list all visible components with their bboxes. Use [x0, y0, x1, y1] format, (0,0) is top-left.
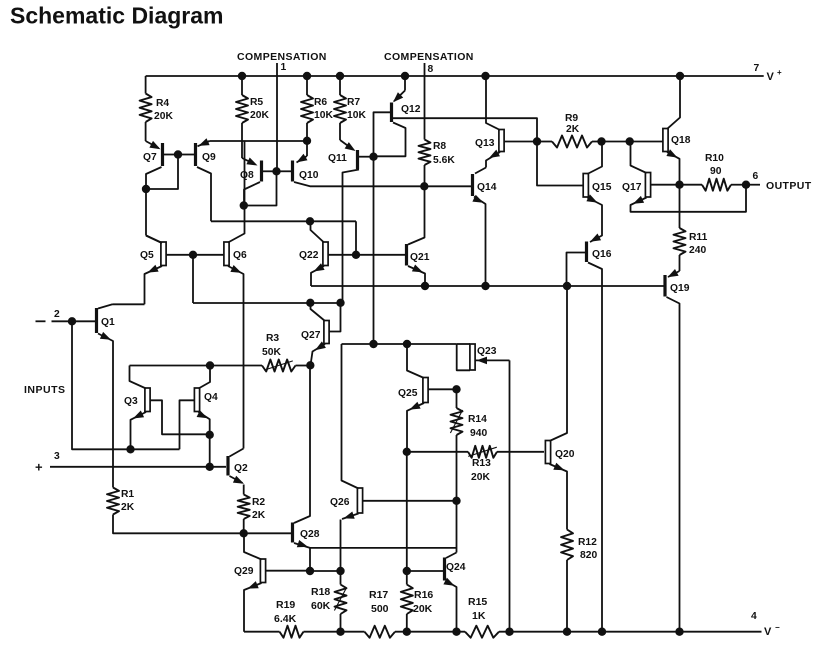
wire R16top to Q24 base	[407, 570, 443, 572]
svg-text:R12: R12	[578, 537, 597, 548]
wire Q23 emitter	[475, 359, 510, 361]
node Q18 collector rail	[676, 72, 684, 80]
node Q21 emitter	[421, 282, 429, 290]
svg-text:INPUTS: INPUTS	[24, 384, 66, 396]
svg-text:Q21: Q21	[410, 252, 430, 263]
wire Q9 collector	[197, 167, 211, 221]
svg-text:50K: 50K	[262, 347, 281, 358]
transistor Q25	[423, 378, 428, 403]
transistor Q24	[443, 558, 446, 581]
node Q3 emitter	[126, 445, 134, 453]
svg-text:20K: 20K	[154, 111, 173, 122]
svg-text:Q1: Q1	[101, 317, 115, 328]
node Q3base-Q4emit	[206, 431, 214, 439]
wire Q22 collector	[311, 221, 325, 242]
node Q14 emitter	[481, 282, 489, 290]
node R6 bottom	[303, 137, 311, 145]
wire Q27 emitter	[311, 344, 326, 365]
node Q28 emitter	[306, 567, 314, 575]
wire Q25 collector	[407, 344, 424, 378]
wire R3 row left	[130, 365, 263, 367]
wire Q12 emitter	[404, 76, 406, 91]
resistor R13	[407, 451, 468, 453]
transistor Q21	[405, 244, 408, 266]
svg-text:20K: 20K	[471, 472, 490, 483]
svg-text:R18: R18	[311, 586, 330, 598]
svg-text:10K: 10K	[347, 110, 366, 121]
node R5 top	[238, 72, 246, 80]
slash R3	[264, 361, 293, 370]
resistor R15	[465, 626, 499, 638]
node R12 bottom	[563, 628, 571, 636]
svg-text:Q13: Q13	[475, 138, 495, 149]
node R18 top	[336, 567, 344, 575]
wire V- rail c	[395, 631, 465, 633]
resistor R12	[561, 530, 573, 561]
svg-text:R14: R14	[468, 414, 487, 425]
wire Q9 emitter rail	[210, 140, 308, 142]
svg-text:Q10: Q10	[299, 170, 319, 181]
svg-text:Q14: Q14	[477, 182, 497, 193]
wire Q14 emitter	[474, 197, 486, 287]
svg-text:Q15: Q15	[592, 182, 612, 193]
node Q22-Q21 base	[352, 251, 360, 259]
transistor Q7	[161, 143, 164, 166]
svg-text:2K: 2K	[121, 502, 135, 513]
node R2 bottom	[240, 529, 248, 537]
resistor R8	[419, 140, 431, 166]
svg-text:R19: R19	[276, 599, 295, 611]
svg-text:Q4: Q4	[204, 392, 218, 403]
wire Q27 collector	[311, 303, 326, 321]
node Q25 base	[452, 385, 460, 393]
node R9 right	[597, 137, 605, 145]
svg-text:Q8: Q8	[240, 170, 254, 181]
resistor R3	[262, 360, 296, 372]
svg-text:6: 6	[753, 171, 759, 182]
wire pin2row to Q4base	[131, 448, 180, 450]
svg-text:R10: R10	[705, 153, 724, 164]
wire Q18 collector	[667, 76, 680, 129]
node row344 a	[369, 340, 377, 348]
svg-text:R7: R7	[347, 97, 360, 108]
svg-text:R3: R3	[266, 333, 279, 344]
wire Q9 base	[178, 154, 194, 156]
wire Q3 emitter	[131, 412, 147, 449]
wire Q21 collector	[408, 186, 425, 244]
wire R6 to Q10 emitter	[306, 141, 308, 156]
transistor Q1	[95, 308, 98, 333]
node R7 top	[336, 72, 344, 80]
resistor R19	[280, 626, 304, 638]
wire Q9 emitter	[198, 141, 210, 146]
svg-text:Q22: Q22	[299, 250, 319, 261]
wire Q21 emitter	[408, 266, 425, 286]
wire Q22 base	[329, 254, 357, 256]
wire base row y303	[193, 302, 341, 304]
svg-text:−: −	[775, 623, 780, 632]
svg-text:R8: R8	[433, 141, 446, 152]
node Q7-Q9 base	[174, 150, 182, 158]
node Q27 collector	[306, 299, 314, 307]
wire Q7 base to node	[164, 154, 178, 156]
svg-text:Q9: Q9	[202, 152, 216, 163]
transistor Q19	[663, 275, 666, 297]
svg-text:V: V	[767, 71, 775, 83]
node Q19 collector bottom	[675, 628, 683, 636]
resistor R7	[339, 76, 341, 95]
node Q7 collector	[142, 185, 150, 193]
wire Q13 base	[504, 141, 537, 143]
svg-text:Q19: Q19	[670, 283, 690, 294]
svg-text:Q6: Q6	[233, 250, 247, 261]
transistor Q26	[357, 488, 362, 513]
resistor R2	[243, 485, 245, 495]
wire Q10 base	[277, 170, 292, 172]
transistor Q20	[545, 441, 550, 464]
svg-text:90: 90	[710, 166, 722, 177]
wire Q4 collector	[199, 366, 211, 389]
wire Q4 emitter	[199, 412, 210, 435]
resistor R18	[340, 571, 342, 585]
svg-text:V: V	[764, 626, 772, 638]
wire R14 top	[456, 389, 458, 408]
wire Q6 collector	[228, 141, 245, 243]
wire Q8 collector	[244, 182, 260, 206]
svg-text:20K: 20K	[413, 603, 433, 615]
svg-text:R9: R9	[565, 113, 578, 124]
transistor Q3	[145, 388, 150, 412]
wire Q1 collector	[98, 304, 113, 308]
wire Q15 emitter	[587, 198, 602, 243]
svg-text:60K: 60K	[311, 600, 331, 612]
wire Q7coll to Q5 collector	[145, 189, 147, 236]
svg-text:Q28: Q28	[300, 529, 320, 540]
transistor Q13	[499, 130, 504, 152]
node pin6	[742, 181, 750, 189]
wire Q4 base riser	[180, 400, 195, 449]
wire V- rail b	[304, 631, 365, 633]
wire Q26 emitter	[342, 514, 359, 520]
wire Q26 base	[363, 500, 457, 502]
wire pin8 compensation lead	[424, 63, 426, 140]
transistor Q16	[585, 242, 588, 263]
svg-text:R6: R6	[314, 97, 327, 108]
transistor Q15	[583, 174, 588, 198]
svg-text:OUTPUT: OUTPUT	[766, 180, 812, 192]
wire Q13 emitter	[486, 152, 500, 168]
wire Q28 collector	[294, 365, 310, 523]
resistor R10	[680, 184, 703, 186]
svg-text:4: 4	[751, 611, 757, 622]
wire Q5 emitter	[145, 266, 163, 304]
resistor R14	[451, 408, 463, 435]
svg-text:Q3: Q3	[124, 396, 138, 407]
svg-text:10K: 10K	[314, 110, 333, 121]
wire R12 bottom	[566, 560, 568, 632]
wire R5 to Q8 emitter	[242, 158, 255, 164]
resistor R17	[365, 626, 396, 638]
wire Q20 collector	[550, 286, 568, 441]
wire Q25emit to R16	[406, 452, 408, 571]
wire Q27 base	[329, 303, 341, 332]
slash R13a	[468, 447, 497, 456]
transistor Q11	[356, 150, 359, 169]
transistor Q22	[323, 242, 328, 266]
svg-text:1: 1	[281, 62, 287, 73]
wire Q15 collector	[587, 142, 602, 175]
slash R18	[334, 588, 346, 611]
wire Q17 emitter	[631, 185, 747, 212]
svg-text:2: 2	[54, 309, 60, 320]
node R16 top	[403, 567, 411, 575]
svg-text:Q27: Q27	[301, 330, 321, 341]
wire Q11 collector	[343, 170, 360, 303]
wire row to base node	[355, 221, 357, 255]
wire mid row	[311, 285, 664, 287]
wire R8 to Q14 base node	[424, 165, 426, 186]
wire Q3 collector	[130, 366, 147, 389]
wire Q1 emitter	[98, 334, 113, 488]
wire Q12 base riser	[374, 112, 391, 156]
svg-text:820: 820	[580, 550, 597, 561]
wire Q23emit to Vminus	[509, 360, 511, 631]
wire Q5 emit to Q1 coll	[113, 303, 145, 305]
wire Q26 collector	[342, 344, 359, 489]
node V- a	[505, 628, 513, 636]
wire Q5 base	[166, 254, 193, 256]
wire R7 to Q11 emitter	[340, 140, 353, 150]
svg-text:Q5: Q5	[140, 250, 154, 261]
wire node to Q25 row	[373, 157, 375, 344]
transistor Q27	[324, 321, 329, 344]
wire R3 right	[296, 365, 311, 367]
node R18 bottom	[336, 628, 344, 636]
svg-text:R16: R16	[414, 589, 433, 601]
resistor R4	[145, 76, 147, 94]
wire R1 bottom	[113, 515, 291, 534]
transistor Q23	[470, 344, 475, 370]
transistor Q5	[161, 242, 166, 266]
wire R11 to Q19 emitter	[679, 255, 681, 271]
resistor R16	[406, 571, 408, 585]
svg-text:20K: 20K	[250, 110, 269, 121]
wire Q6 base	[193, 254, 224, 256]
node R13 left	[403, 448, 411, 456]
wire Q7 base-collector tie	[146, 155, 178, 190]
svg-text:5.6K: 5.6K	[433, 155, 455, 166]
svg-text:Q18: Q18	[671, 135, 691, 146]
wire Q12 base to Q13 base	[393, 118, 537, 141]
svg-text:R2: R2	[252, 497, 265, 508]
svg-text:240: 240	[689, 245, 706, 256]
node Q26 base right	[452, 497, 460, 505]
wire Q19 collector	[667, 297, 680, 632]
wire Q12 collector	[375, 123, 406, 157]
wire R9 to Q18 base	[602, 141, 664, 143]
node mid row R12	[563, 282, 571, 290]
wire Q25 base	[428, 388, 456, 390]
wire V- rail a	[244, 631, 280, 633]
wire pin6	[746, 184, 760, 186]
transistor Q9	[194, 143, 197, 166]
node Q24 emitter	[452, 628, 460, 636]
svg-text:940: 940	[470, 428, 487, 439]
wire pin2 riser	[72, 321, 131, 449]
svg-text:Q29: Q29	[234, 566, 254, 577]
transistor Q14	[471, 174, 474, 196]
transistor Q17	[645, 173, 650, 198]
svg-text:R17: R17	[369, 589, 388, 601]
node Q8-Q10 base	[272, 167, 280, 175]
wire Q23 base top	[457, 343, 470, 345]
pin 2 tick	[36, 320, 46, 322]
svg-text:+: +	[777, 68, 782, 77]
svg-text:Q23: Q23	[477, 346, 497, 357]
wire Q16 base	[567, 253, 586, 287]
node Q5-Q6 base	[189, 251, 197, 259]
node output junction	[675, 181, 683, 189]
node R3 right	[306, 361, 314, 369]
transistor Q2	[226, 456, 229, 476]
transistor Q6	[224, 242, 229, 266]
svg-text:Q2: Q2	[234, 463, 248, 474]
svg-text:Q16: Q16	[592, 249, 612, 260]
wire Q6 emitter	[228, 266, 244, 449]
transistor Q12	[390, 103, 393, 123]
transistor Q18	[663, 129, 668, 152]
wire Q29 base	[266, 570, 311, 572]
svg-text:7: 7	[754, 63, 760, 74]
wire Q28 emitter	[294, 543, 457, 548]
svg-text:R13: R13	[472, 458, 491, 469]
wire row344	[342, 343, 457, 345]
transistor Q4	[194, 388, 199, 412]
wire R11 top	[679, 185, 681, 228]
wire pin2	[52, 320, 96, 322]
node Q11-Q12 base	[369, 153, 377, 161]
wire base riser	[192, 255, 194, 303]
wire pin1 compensation lead	[276, 63, 278, 171]
node row344 b	[403, 340, 411, 348]
node Q16 collector bottom	[598, 628, 606, 636]
transistor Q29	[260, 559, 265, 583]
wire pin3	[50, 466, 226, 468]
wire Q17 base	[651, 184, 680, 186]
svg-text:COMPENSATION: COMPENSATION	[384, 51, 474, 63]
node pin3-Q4 junction	[206, 463, 214, 471]
svg-text:2K: 2K	[252, 510, 266, 521]
node pin2	[68, 317, 76, 325]
resistor R1	[107, 488, 119, 515]
svg-text:R5: R5	[250, 97, 263, 108]
wire Q4emit to pin3	[209, 435, 211, 467]
wire Q7 collector	[146, 167, 162, 189]
svg-text:Q11: Q11	[328, 153, 347, 164]
wire Q23 collector	[457, 344, 470, 370]
node R9 left	[533, 137, 541, 145]
node Q22 collector	[306, 217, 314, 225]
wire V- rail d	[499, 631, 762, 633]
svg-text:Q24: Q24	[446, 562, 466, 573]
wire R14 bottom	[456, 435, 458, 501]
wire Q10 collector	[294, 182, 424, 186]
node Q17 collector top	[626, 137, 634, 145]
wire Q24 emitter	[446, 581, 457, 632]
svg-text:500: 500	[371, 603, 389, 615]
transistor Q10	[291, 161, 294, 182]
svg-text:6.4K: 6.4K	[274, 613, 297, 625]
node Q8 collector	[240, 201, 248, 209]
wire Q14 collector	[475, 168, 486, 174]
wire Q3 base	[150, 400, 208, 434]
svg-text:Q7: Q7	[143, 152, 157, 163]
wire Q8coll to base tie	[244, 171, 277, 205]
svg-text:1K: 1K	[472, 610, 486, 622]
wire Q17 collector	[631, 142, 647, 174]
wire Q25 emitter	[407, 403, 424, 452]
wire Q18 emitter	[667, 152, 680, 185]
node R3 row Q4	[206, 361, 214, 369]
wire to Q24 collector	[456, 501, 458, 553]
node Q12 emitter rail	[401, 72, 409, 80]
wire Q9coll to Q22coll row	[211, 220, 356, 222]
svg-text:2K: 2K	[566, 124, 580, 135]
wire Q22 emitter	[311, 266, 324, 286]
wire V+ rail	[146, 75, 764, 77]
svg-text:Q25: Q25	[398, 388, 418, 399]
transistor Q28	[291, 523, 294, 543]
wire Q11 base	[359, 156, 374, 158]
resistor R9	[537, 141, 552, 143]
wire Q26emit drop	[340, 520, 342, 572]
svg-text:Q17: Q17	[622, 182, 642, 193]
node Q27 base	[336, 299, 344, 307]
slash R14	[450, 410, 462, 433]
wire Q5 collector	[146, 236, 162, 244]
node R6 top	[303, 72, 311, 80]
svg-text:R1: R1	[121, 489, 134, 500]
wire Q15 base	[537, 142, 583, 186]
wire Q2 emitter	[230, 476, 243, 483]
node Q14 base	[420, 182, 428, 190]
resistor R5	[241, 76, 243, 95]
node Q13 collector rail	[481, 72, 489, 80]
wire R4 to Q7 emitter	[146, 141, 159, 148]
svg-text:Schematic Diagram: Schematic Diagram	[10, 3, 223, 29]
svg-text:R15: R15	[468, 596, 487, 608]
svg-text:R11: R11	[689, 232, 708, 243]
wire Q29 collector	[244, 533, 262, 559]
svg-text:Q26: Q26	[330, 497, 350, 508]
wire Q8 base	[263, 170, 277, 172]
resistor R11	[674, 228, 686, 255]
svg-text:R4: R4	[156, 98, 169, 109]
wire Q28emit drop	[309, 548, 311, 571]
wire Q2 collector	[230, 449, 244, 457]
wire Q14 base	[424, 185, 471, 187]
svg-text:3: 3	[54, 451, 60, 462]
wire Q13 collector	[486, 76, 500, 130]
transistor Q8	[260, 161, 263, 182]
wire Q16 collector	[588, 263, 602, 632]
svg-text:8: 8	[428, 64, 434, 75]
svg-text:Q12: Q12	[401, 104, 421, 115]
resistor R6	[306, 76, 308, 95]
wire Q20 emitter	[550, 464, 568, 530]
svg-text:Q20: Q20	[555, 449, 575, 460]
wire Q29 emitter	[244, 583, 262, 632]
